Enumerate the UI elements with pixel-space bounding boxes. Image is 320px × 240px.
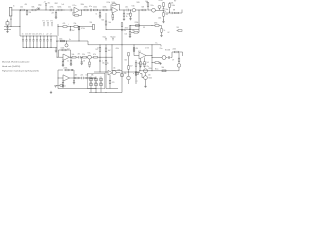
resistor R39 vertical bbox=[109, 80, 111, 84]
wire x152 vertical bbox=[151, 45, 153, 71]
svg-text:22n: 22n bbox=[36, 34, 39, 36]
resistor R37 small bbox=[58, 85, 60, 87]
wire bbox=[128, 69, 130, 76]
ground bbox=[73, 82, 75, 84]
svg-text:B+: B+ bbox=[156, 43, 158, 45]
wire mid bus upper bbox=[56, 40, 88, 42]
wire bbox=[135, 60, 137, 63]
node V junction bbox=[99, 43, 102, 46]
capacitor CS4 selector bbox=[32, 35, 35, 38]
ground bbox=[143, 65, 145, 67]
svg-text:100k: 100k bbox=[59, 39, 63, 41]
wire bbox=[50, 91, 52, 92]
lamp LP2 bbox=[127, 76, 131, 80]
resistor R45 vertical below U5 bbox=[140, 59, 142, 62]
node AF junction bbox=[69, 56, 72, 59]
wire bbox=[4, 26, 20, 28]
node bus junction 2 bbox=[105, 91, 108, 94]
wire bbox=[56, 9, 58, 11]
svg-text:68k: 68k bbox=[91, 75, 94, 77]
svg-text:470k: 470k bbox=[154, 22, 158, 24]
svg-text:In: In bbox=[13, 5, 15, 7]
svg-text:1k: 1k bbox=[96, 13, 98, 15]
node X junction bbox=[111, 43, 114, 46]
node AX junction bbox=[139, 69, 142, 72]
svg-text:to V3: to V3 bbox=[145, 47, 149, 50]
wire bbox=[135, 75, 137, 84]
node G junction bbox=[99, 9, 102, 12]
resistor R13b bbox=[142, 9, 146, 11]
op-amp U5 bbox=[139, 52, 146, 59]
node M junction bbox=[168, 11, 171, 14]
svg-text:820R: 820R bbox=[127, 14, 132, 16]
wire bbox=[163, 6, 165, 8]
svg-text:.47: .47 bbox=[50, 34, 52, 36]
resistor R25 bbox=[155, 25, 159, 27]
resistor R7 bbox=[84, 9, 88, 11]
resistor RG3 grid bbox=[99, 79, 102, 81]
svg-text:4k7: 4k7 bbox=[130, 66, 133, 68]
resistor R34 vertical bbox=[62, 82, 64, 85]
svg-text:220k: 220k bbox=[93, 6, 97, 8]
svg-text:S1: S1 bbox=[10, 19, 12, 21]
ground bbox=[6, 30, 8, 32]
svg-text:Master: Master bbox=[111, 36, 117, 39]
ferrite bead FB1 bbox=[37, 8, 39, 10]
node Q junction bbox=[69, 25, 72, 28]
resistor R17 bbox=[175, 12, 179, 14]
diode D1 bbox=[7, 28, 9, 30]
wire R26b stub bbox=[177, 30, 179, 32]
svg-text:4k7: 4k7 bbox=[108, 50, 111, 52]
svg-text:10k: 10k bbox=[72, 54, 75, 56]
wire bbox=[132, 73, 135, 75]
wire tone bus right vertical bbox=[56, 36, 58, 57]
resistor R42 vertical bbox=[135, 72, 137, 75]
node AB junction bbox=[105, 28, 108, 31]
wire second row bus bbox=[58, 26, 63, 28]
resistor R40 vertical bbox=[128, 66, 130, 69]
svg-text:1n: 1n bbox=[97, 47, 99, 49]
svg-text:1k: 1k bbox=[67, 60, 69, 62]
svg-text:220p: 220p bbox=[38, 4, 42, 6]
wire bbox=[59, 49, 63, 51]
wire long vertical x112 bbox=[111, 45, 113, 71]
wire grid bottom bus bbox=[89, 92, 122, 94]
capacitor C10 to ground bbox=[73, 78, 75, 81]
svg-text:OT: OT bbox=[172, 59, 174, 61]
node R junction bbox=[78, 25, 81, 28]
svg-text:10k: 10k bbox=[125, 34, 128, 36]
wire U5 output bbox=[146, 55, 152, 57]
resistor R21 vertical bbox=[105, 48, 107, 52]
ground bbox=[139, 65, 141, 67]
capacitor CS8 selector bbox=[46, 35, 49, 38]
node T junction bbox=[65, 40, 68, 43]
svg-text:22u: 22u bbox=[147, 66, 150, 68]
ground bbox=[160, 34, 162, 36]
svg-text:470k: 470k bbox=[125, 27, 129, 29]
resistor R13 to supply vertical bbox=[147, 7, 149, 11]
wire U1b feedback left leg bbox=[110, 5, 112, 11]
resistor R21c vertical bbox=[99, 48, 101, 52]
lamp LP3 bbox=[177, 64, 181, 68]
resistor R12b to ground vertical bbox=[130, 10, 132, 13]
svg-text:6550: 6550 bbox=[149, 68, 153, 70]
node AS junction bbox=[127, 71, 130, 74]
capacitor C8 to ground bbox=[81, 57, 83, 61]
node D junction bbox=[55, 9, 58, 12]
tube V2b small bbox=[158, 5, 161, 8]
svg-text:470k: 470k bbox=[50, 7, 54, 9]
wire x128 vertical bbox=[128, 56, 130, 66]
potentiometer VR1 bbox=[93, 24, 95, 29]
resistor R11b vertical bbox=[112, 15, 114, 18]
wire x139 extension bbox=[138, 30, 140, 33]
ground bbox=[123, 18, 125, 20]
svg-text:.22: .22 bbox=[46, 34, 48, 36]
capacitor C4 bbox=[126, 9, 128, 11]
svg-text:V3b: V3b bbox=[118, 70, 121, 72]
wire bbox=[155, 9, 163, 11]
resistor R46 vertical below U5 bbox=[144, 57, 146, 61]
svg-text:4n7: 4n7 bbox=[67, 48, 70, 50]
resistor R5 bbox=[58, 9, 62, 11]
svg-text:V2a: V2a bbox=[151, 5, 154, 7]
svg-text:IC2: IC2 bbox=[138, 51, 141, 53]
wire v1a cathode leg bbox=[105, 13, 107, 21]
wire selector to ground bbox=[55, 48, 57, 51]
ground bbox=[81, 62, 83, 64]
svg-text:V1b: V1b bbox=[132, 5, 135, 7]
resistor R16 vertical bbox=[169, 4, 171, 8]
wire grid col 2 vertical bbox=[95, 78, 97, 93]
svg-text:1k5: 1k5 bbox=[166, 14, 169, 16]
node AU junction bbox=[151, 69, 154, 72]
svg-text:47k: 47k bbox=[63, 23, 66, 25]
resistor R8 bbox=[94, 9, 98, 11]
svg-text:Vol: Vol bbox=[109, 22, 112, 24]
resistor R1 grid stopper vertical bbox=[26, 9, 28, 12]
node AR junction bbox=[121, 71, 124, 74]
wire chain to tone bus bbox=[57, 24, 59, 36]
svg-text:P3: P3 bbox=[51, 21, 53, 23]
wire sleeve contact bbox=[4, 28, 11, 30]
wire bbox=[88, 9, 90, 11]
svg-text:220k: 220k bbox=[173, 48, 177, 50]
node Z junction bbox=[133, 43, 136, 46]
svg-text:47k: 47k bbox=[93, 54, 96, 56]
wire bbox=[105, 52, 107, 58]
wire bbox=[64, 9, 69, 11]
wire driver plate bbox=[152, 57, 162, 59]
ground bbox=[99, 16, 101, 18]
wire U2 lower input leg bbox=[62, 59, 64, 61]
resistor R49 vertical bbox=[178, 58, 180, 61]
svg-text:470k: 470k bbox=[116, 48, 120, 50]
wire bbox=[107, 9, 112, 11]
wire bbox=[173, 12, 175, 14]
resistor R4 to ground vertical bbox=[55, 10, 57, 13]
wire bbox=[169, 2, 171, 3]
node H1 junction bbox=[118, 9, 121, 12]
node J junction bbox=[138, 9, 141, 12]
wire upper link bus bbox=[130, 25, 155, 27]
svg-text:220: 220 bbox=[148, 74, 151, 76]
node N junction bbox=[6, 25, 9, 28]
wire output stub bbox=[182, 52, 184, 56]
svg-text:Bias: Bias bbox=[155, 68, 158, 70]
wire feedback to output bbox=[116, 4, 120, 6]
wire bbox=[79, 77, 81, 79]
wire bbox=[46, 9, 50, 11]
svg-text:39k: 39k bbox=[124, 73, 127, 75]
resistor R24 bbox=[136, 25, 140, 27]
resistor R31b vertical bbox=[89, 62, 91, 65]
resistor R18 bbox=[63, 26, 67, 28]
svg-text:Pighammer mod drawn by Roly (2: Pighammer mod drawn by Roly (2023) bbox=[2, 70, 39, 72]
wire bbox=[128, 80, 130, 84]
pot gain tap bbox=[105, 38, 107, 40]
wire NFB tap bbox=[131, 31, 134, 33]
resistor RG6 grid bbox=[99, 84, 102, 86]
svg-text:100k: 100k bbox=[172, 5, 176, 7]
wire bbox=[163, 10, 165, 12]
capacitor C9b feedback bbox=[70, 69, 72, 71]
resistor R6 feedback bbox=[73, 14, 75, 16]
capacitor C9 bbox=[81, 77, 83, 79]
svg-text:22n: 22n bbox=[81, 75, 84, 77]
wire bbox=[57, 70, 59, 89]
wire U3 output bbox=[70, 77, 76, 79]
svg-text:22n: 22n bbox=[68, 6, 71, 8]
wire bbox=[99, 51, 101, 57]
wire U1 output bbox=[80, 9, 85, 11]
svg-text:0V: 0V bbox=[168, 32, 170, 34]
resistor RG4 grid bbox=[89, 84, 92, 86]
wire bbox=[92, 9, 93, 11]
wire x140 vertical bbox=[139, 62, 141, 71]
wire mid bus lower bbox=[88, 44, 161, 46]
svg-text:10k: 10k bbox=[20, 6, 23, 8]
node R2 junction bbox=[57, 25, 60, 28]
node L junction bbox=[162, 19, 165, 22]
resistor R26 vertical bbox=[161, 29, 163, 33]
svg-text:P1: P1 bbox=[43, 21, 45, 23]
capacitor CS7 selector bbox=[43, 35, 46, 38]
wire V2b stub bbox=[159, 8, 161, 10]
resistor R40b vertical bbox=[128, 53, 130, 56]
capacitor C6b vertical bbox=[121, 28, 123, 30]
svg-text:4n7: 4n7 bbox=[72, 30, 75, 32]
svg-text:82k: 82k bbox=[138, 72, 141, 74]
svg-text:47n: 47n bbox=[39, 34, 42, 36]
svg-text:82k: 82k bbox=[125, 60, 128, 62]
wire U5 input bbox=[133, 45, 135, 56]
wire bbox=[145, 80, 147, 87]
wire feedback to output bbox=[79, 14, 82, 16]
svg-text:12k: 12k bbox=[113, 67, 116, 69]
switch jack S1 box bbox=[6, 22, 9, 25]
svg-text:2n2: 2n2 bbox=[25, 34, 28, 36]
wire below node AC bbox=[129, 30, 131, 32]
resistor R23c bbox=[134, 32, 138, 34]
resistor R15 vertical bbox=[163, 13, 165, 17]
svg-text:22k: 22k bbox=[132, 30, 135, 32]
svg-text:820: 820 bbox=[102, 20, 105, 22]
ground bbox=[62, 85, 64, 87]
svg-text:6k8: 6k8 bbox=[142, 6, 145, 8]
wire bbox=[98, 56, 113, 58]
tube V2a bbox=[152, 8, 156, 12]
wire link bbox=[94, 71, 108, 73]
wire bbox=[178, 62, 180, 64]
ground bbox=[54, 85, 56, 87]
wire bbox=[105, 72, 107, 89]
svg-text:50u: 50u bbox=[166, 9, 169, 11]
tube V5 bbox=[162, 56, 166, 60]
svg-text:1M: 1M bbox=[29, 12, 32, 14]
wire stage2 input bbox=[57, 56, 63, 58]
resistor R27 feedback bbox=[62, 49, 66, 51]
wire pi bottom link bbox=[106, 88, 118, 90]
ground bbox=[129, 18, 131, 20]
svg-text:4n7: 4n7 bbox=[29, 34, 32, 36]
wire bbox=[179, 12, 183, 14]
resistor R23 vertical bbox=[129, 26, 131, 29]
svg-text:1M: 1M bbox=[90, 22, 93, 24]
wire bbox=[91, 56, 93, 58]
wire grid col 1 vertical bbox=[90, 78, 92, 93]
resistor R31 bbox=[94, 56, 98, 58]
resistor R9 to ground vertical bbox=[99, 10, 101, 12]
wire bbox=[87, 56, 88, 58]
node AA junction bbox=[151, 43, 154, 46]
resistor R20 on mid bus bbox=[61, 40, 65, 42]
node AG junction bbox=[80, 56, 83, 59]
wire bbox=[7, 25, 9, 27]
svg-text:V6: V6 bbox=[136, 73, 138, 75]
capacitor C6 bbox=[170, 12, 172, 14]
svg-text:47n: 47n bbox=[124, 30, 127, 32]
wire U2 feedback left leg bbox=[58, 50, 60, 57]
capacitor C3 bbox=[89, 9, 91, 11]
resistor R35 bbox=[75, 77, 79, 79]
wire bbox=[105, 25, 107, 30]
wire chain A top bbox=[163, 1, 165, 3]
wire tone bus top bbox=[20, 35, 57, 37]
node AL junction bbox=[73, 77, 76, 80]
node B junction bbox=[26, 9, 29, 12]
node AC junction bbox=[129, 28, 132, 31]
svg-text:470R: 470R bbox=[159, 0, 164, 2]
wire bbox=[148, 9, 152, 11]
wire pi link 2 bbox=[122, 71, 129, 73]
tube V7 output bbox=[144, 76, 148, 80]
wire bbox=[138, 31, 139, 33]
wire gain pot leg bbox=[105, 45, 107, 48]
svg-text:P2: P2 bbox=[47, 21, 49, 23]
wire bbox=[178, 67, 180, 71]
capacitor C2 coupling bbox=[69, 9, 71, 11]
ground bbox=[88, 65, 90, 67]
op-amp U1b bbox=[112, 7, 118, 13]
op-amp U3 bbox=[63, 75, 70, 81]
svg-text:22n: 22n bbox=[125, 6, 128, 8]
svg-text:47n: 47n bbox=[78, 54, 81, 56]
svg-text:470k: 470k bbox=[84, 7, 88, 9]
wire to indicator bbox=[66, 41, 68, 44]
wire bbox=[130, 16, 132, 18]
resistor R50 grid stopper bbox=[135, 73, 138, 75]
svg-text:25k: 25k bbox=[74, 23, 77, 25]
wire bbox=[67, 26, 74, 28]
svg-text:1k5: 1k5 bbox=[147, 62, 150, 64]
node AK junction bbox=[57, 77, 60, 80]
wire bbox=[78, 26, 93, 28]
node bus junction 1 bbox=[95, 91, 98, 94]
svg-text:1n5: 1n5 bbox=[62, 4, 65, 6]
resistor R47 bbox=[155, 62, 159, 64]
resistor R38 vertical bbox=[105, 61, 107, 64]
svg-text:8R: 8R bbox=[173, 10, 176, 12]
svg-text:HT: HT bbox=[174, 1, 176, 3]
resistor R44 vertical bbox=[133, 48, 135, 52]
svg-text:470: 470 bbox=[112, 82, 115, 84]
svg-text:1n: 1n bbox=[22, 34, 24, 36]
wire bbox=[129, 35, 131, 36]
wire S1 top stub bbox=[7, 20, 9, 22]
op-amp U1 bbox=[74, 7, 79, 13]
svg-text:ECC83: ECC83 bbox=[165, 50, 170, 52]
wire tap to R47 bbox=[152, 62, 155, 64]
resistor R36 bbox=[86, 77, 90, 79]
wire bbox=[179, 51, 183, 53]
node H0 junction bbox=[110, 9, 113, 12]
wire node A vertical to tone bus bbox=[19, 10, 21, 36]
svg-text:1M: 1M bbox=[177, 27, 180, 29]
wire node J down to bus bbox=[138, 10, 140, 30]
wire U1b lower leg bbox=[112, 12, 114, 14]
svg-text:56k: 56k bbox=[138, 63, 141, 65]
wire bbox=[163, 16, 165, 21]
svg-text:220k: 220k bbox=[158, 18, 162, 20]
ground bbox=[162, 21, 164, 23]
pot master tap bbox=[112, 38, 114, 40]
node AT junction bbox=[151, 54, 154, 57]
svg-text:IC1a: IC1a bbox=[73, 5, 77, 7]
svg-text:PI: PI bbox=[107, 63, 109, 65]
wire bbox=[98, 9, 104, 11]
node W junction bbox=[105, 43, 108, 46]
node O junction bbox=[10, 25, 13, 28]
wire bbox=[36, 9, 46, 11]
capacitor CS9 selector bbox=[50, 35, 53, 38]
svg-text:t: t bbox=[69, 23, 70, 26]
svg-text:4k7: 4k7 bbox=[75, 75, 78, 77]
input jack J1 bbox=[9, 7, 12, 16]
node AM junction bbox=[91, 77, 94, 80]
node Y junction bbox=[121, 43, 124, 46]
ground bbox=[112, 18, 114, 20]
lamp LP1 bbox=[65, 44, 68, 47]
wire bbox=[7, 27, 9, 28]
svg-text:Marshall JH-100 Leadmaster: Marshall JH-100 Leadmaster bbox=[2, 60, 30, 63]
wire x100 upper leg bbox=[99, 45, 101, 48]
wire bbox=[69, 69, 71, 71]
switch matrix enclosure bbox=[88, 73, 105, 89]
capacitor C7 bbox=[78, 56, 80, 58]
